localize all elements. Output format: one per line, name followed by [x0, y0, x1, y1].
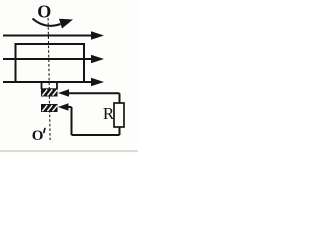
wire to brush 1 with arrowhead: [58, 89, 120, 96]
brush/slip-ring contact 2 (hatched): [41, 104, 58, 112]
bottom wire: [72, 134, 120, 136]
wire down-left of circuit: [71, 107, 73, 135]
prime mark of O': [44, 128, 45, 133]
svg-text:R: R: [103, 104, 115, 123]
shaft (axle between loop and brushes): [42, 82, 58, 89]
wire down to resistor top: [119, 93, 121, 103]
rotation direction arrow: [33, 19, 74, 29]
field arrow 3 (bottom): [3, 78, 104, 86]
field arrow 2 (middle): [3, 55, 104, 63]
field arrow 1 (top): [3, 31, 104, 39]
resistor R: [114, 103, 124, 127]
svg-text:O: O: [37, 1, 51, 21]
wire up to resistor bottom: [119, 127, 121, 135]
svg-text:O: O: [32, 128, 44, 144]
rotating loop (rectangle): [16, 44, 85, 82]
axis O-O' dashed line: [48, 18, 50, 140]
brush/slip-ring contact 1 (hatched): [41, 88, 58, 96]
wire to brush 2 with arrowhead: [58, 103, 72, 110]
faint page rule line: [0, 150, 138, 152]
